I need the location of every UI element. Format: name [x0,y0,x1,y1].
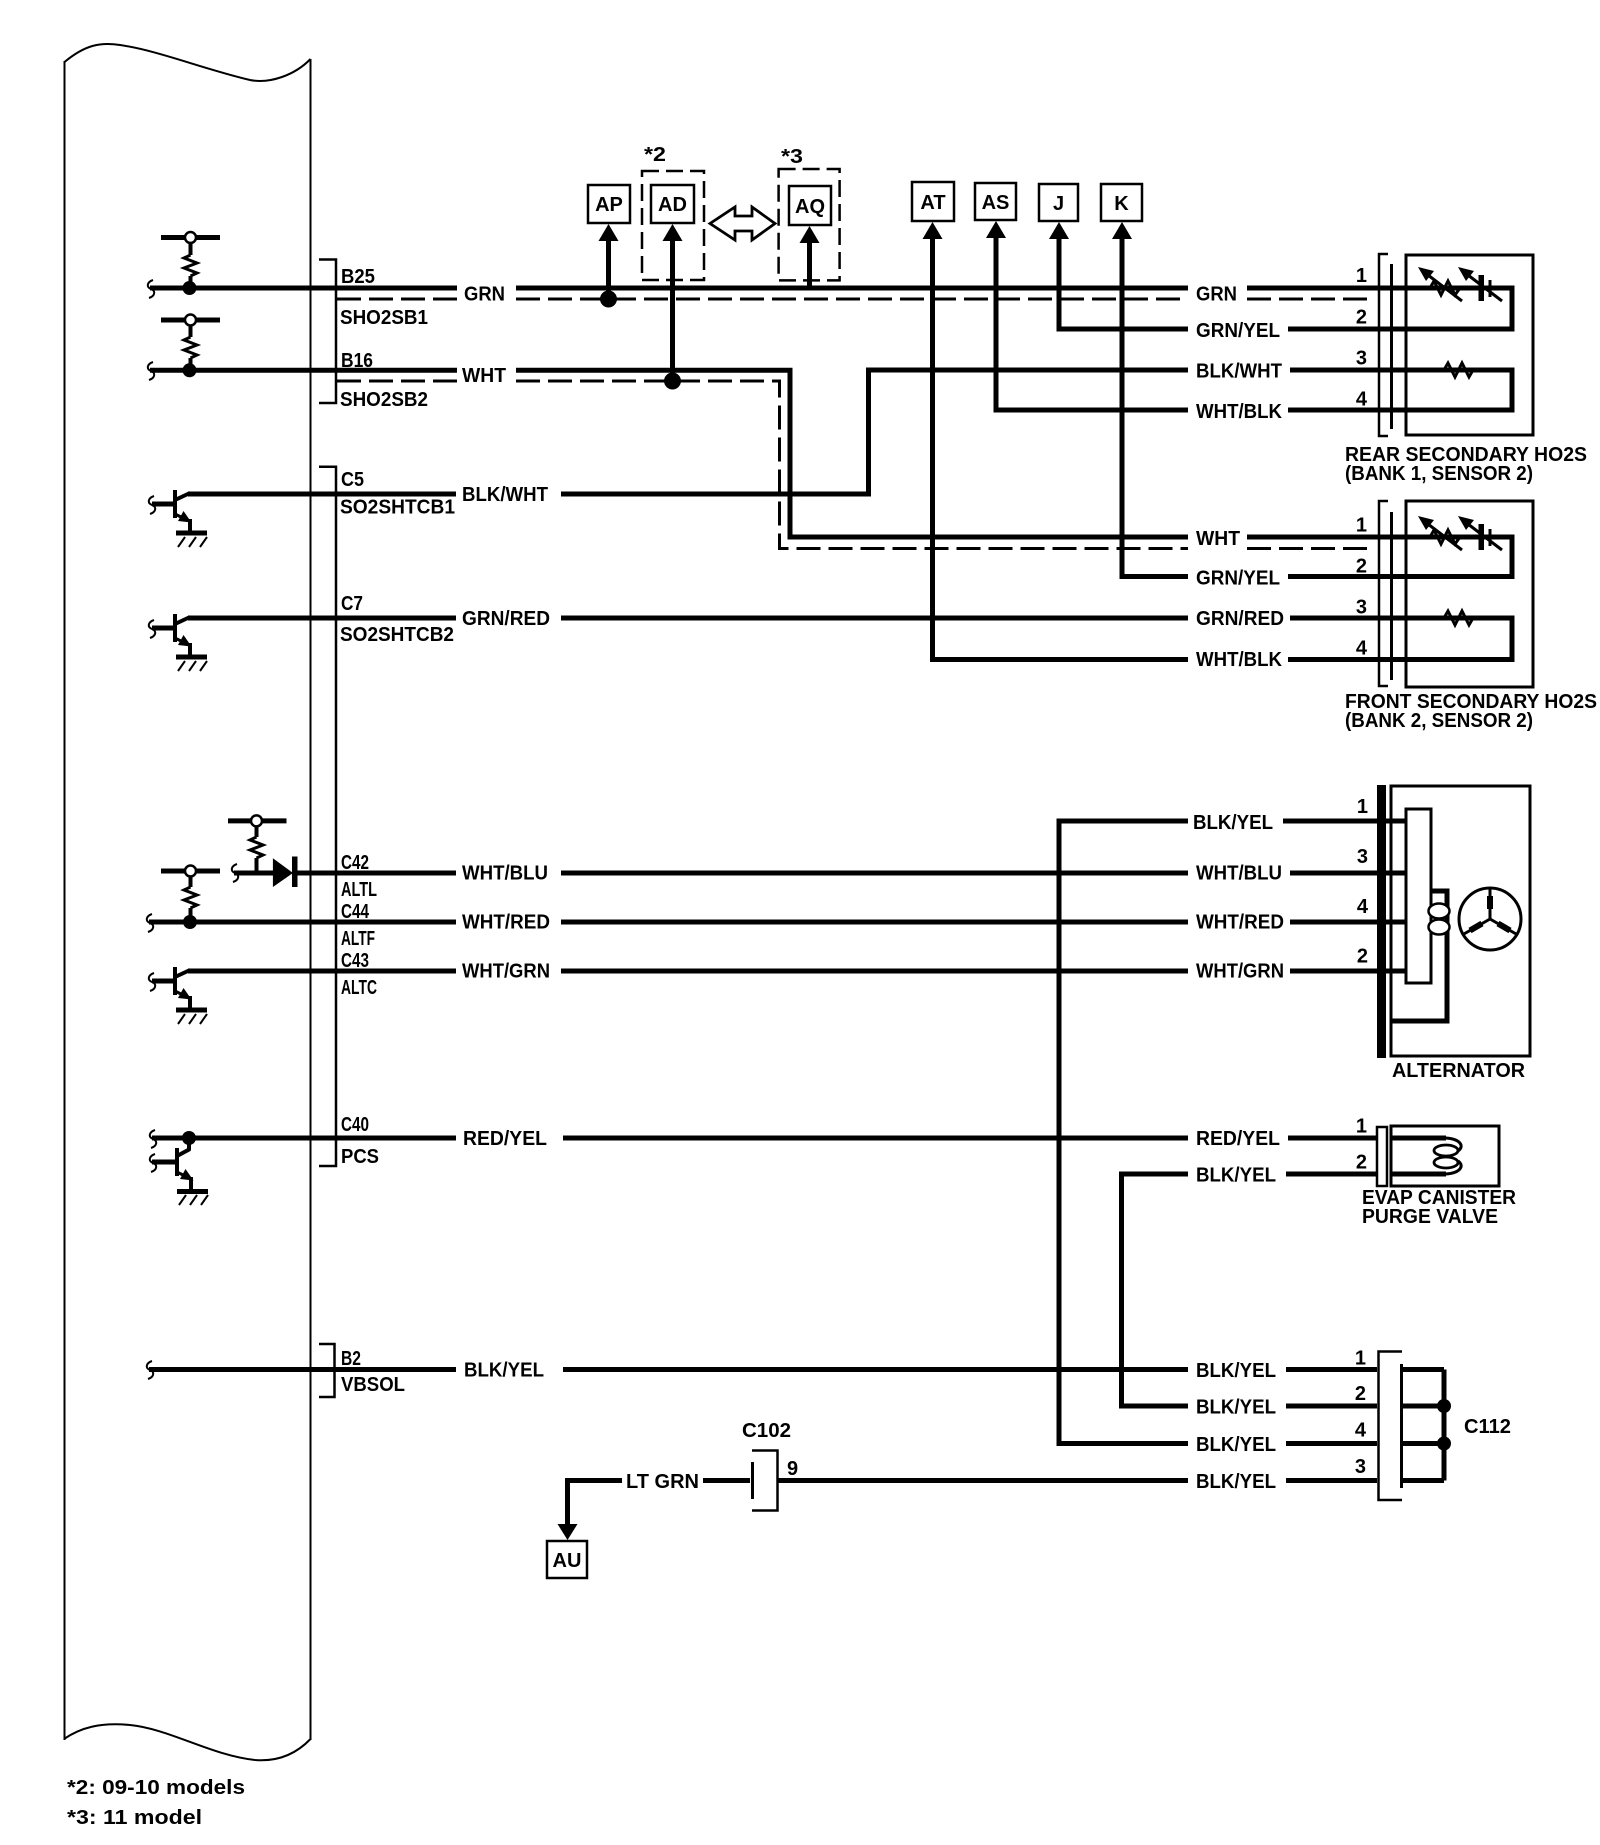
interchange double arrow between AD and AQ [710,207,775,240]
junction dot C40 [182,1131,196,1145]
front HO2S component box [1406,501,1533,687]
wire break C40 [150,1130,156,1148]
svg-text:RED/YEL: RED/YEL [463,1128,547,1150]
connector box AD [651,185,694,223]
alternator component box [1391,786,1530,1056]
svg-text:3: 3 [1356,348,1367,370]
svg-text:BLK/YEL: BLK/YEL [1196,1165,1276,1187]
svg-text:AQ: AQ [795,196,825,218]
svg-text:RED/YEL: RED/YEL [1196,1128,1280,1150]
svg-text:C5: C5 [341,469,364,491]
wire B2 pin (BLK/YEL) [149,1367,456,1372]
rear HO2S sensing element (variable resistor + cell with arrows) [1394,267,1512,329]
svg-text:AT: AT [920,192,945,214]
svg-text:BLK/WHT: BLK/WHT [462,484,548,506]
shield drain WHT (dashed) [337,381,1375,549]
svg-text:9: 9 [787,1458,798,1480]
svg-text:C42: C42 [341,852,369,874]
svg-text:BLK/YEL: BLK/YEL [464,1360,544,1382]
svg-text:AU: AU [553,1550,582,1572]
rear HO2S harness connector [1379,254,1392,436]
svg-text:J: J [1053,193,1064,215]
svg-text:VBSOL: VBSOL [341,1374,405,1396]
wire BLK/YEL C112 pin 2 stub [1286,1404,1444,1409]
svg-text:BLK/YEL: BLK/YEL [1196,1397,1276,1419]
ground (C7 emitter) [176,657,207,671]
pull-up resistor (B16 line bias) [161,315,220,369]
arrow down into AU [558,1478,578,1540]
svg-text:BLK/WHT: BLK/WHT [1196,361,1282,383]
svg-text:C40: C40 [341,1114,369,1136]
svg-text:AS: AS [982,192,1010,214]
wire BLK/YEL purge valve pin 2 / riser to C112 pin 2 [1122,1174,1378,1406]
svg-text:C112: C112 [1464,1416,1511,1438]
C112 joined bus [1442,1370,1447,1481]
pin group bracket C5..C40 [319,467,336,1166]
svg-text:B16: B16 [341,350,373,372]
svg-text:WHT: WHT [462,365,506,387]
junction dot C112 pin 2 [1437,1399,1451,1413]
diode D1 (C42) [273,857,298,888]
svg-text:ALTL: ALTL [341,879,377,901]
svg-text:*2: 09-10 models: *2: 09-10 models [67,1777,245,1799]
svg-text:C102: C102 [742,1420,791,1442]
svg-text:1: 1 [1357,796,1368,818]
wire break B25 [148,280,154,298]
svg-text:C43: C43 [341,950,369,972]
wire BLK/YEL C102 pin 9 to C112 pin 3 [778,1478,1444,1483]
wire GRN/RED run C7 to front HO2S pin 3 [561,616,1512,621]
arrow into AS / wire to rear HO2S pin 4 [986,221,1188,410]
svg-text:*2: *2 [644,144,666,166]
svg-text:2: 2 [1357,946,1368,968]
wire WHT/RED run C44 to alternator pin 4 [561,920,1377,925]
svg-text:B2: B2 [341,1348,361,1370]
svg-text:(BANK 1, SENSOR 2): (BANK 1, SENSOR 2) [1345,463,1533,485]
svg-text:GRN: GRN [1196,284,1237,306]
rear HO2S heater resistor [1394,363,1512,410]
svg-text:LT GRN: LT GRN [626,1471,699,1493]
svg-text:SO2SHTCB1: SO2SHTCB1 [340,497,455,519]
EVAP purge valve component name [1362,1187,1517,1228]
EVAP purge valve harness connector [1377,1127,1387,1186]
svg-text:WHT/GRN: WHT/GRN [1196,961,1284,983]
wire WHT/GRN run C43 to alternator pin 2 [561,969,1377,974]
pin group bracket B2 [319,1344,335,1397]
svg-text:1: 1 [1356,515,1367,537]
rear HO2S component box [1406,255,1533,435]
alternator field coil [1393,891,1450,1021]
EVAP purge valve component box [1391,1126,1499,1186]
svg-text:4: 4 [1356,389,1368,411]
svg-text:WHT/RED: WHT/RED [1196,912,1284,934]
rear HO2S component name [1345,444,1587,485]
wire GRN run to rear HO2S pin 1 [516,286,1512,291]
wire BLK/WHT riser C5 to rear HO2S pin 3 [561,370,1512,494]
front HO2S sensing element (variable resistor + cell with arrows) [1394,516,1512,577]
wire break B16 [148,362,154,380]
svg-text:*3: 11 model: *3: 11 model [67,1807,202,1829]
svg-text:BLK/YEL: BLK/YEL [1193,812,1273,834]
connector box AT [912,182,954,221]
svg-text:BLK/YEL: BLK/YEL [1196,1360,1276,1382]
wire break B2 [147,1361,153,1379]
junction dot AD on WHT shield [664,373,681,390]
svg-text:K: K [1114,193,1129,215]
connector box AU [547,1541,587,1578]
pin group bracket B25/B16 (SHO2SB) [319,260,336,404]
junction dot AP on GRN shield [600,291,617,308]
wire break C44 [147,914,153,932]
connector box J [1039,184,1078,221]
svg-text:WHT/GRN: WHT/GRN [462,961,550,983]
pull-up resistor (B25 line bias) [161,232,220,286]
svg-text:WHT/BLK: WHT/BLK [1196,649,1283,671]
wire B25 pin (GRN) [150,286,457,291]
connector C102 (in-line) [752,1451,778,1511]
transistor driver C40 [150,1138,194,1190]
wire BLK/YEL alternator pin 1 / riser to C112 pin 4 [1059,821,1377,1444]
svg-text:WHT/BLU: WHT/BLU [1196,863,1282,885]
svg-text:GRN/YEL: GRN/YEL [1196,568,1280,590]
front HO2S harness connector [1379,501,1392,686]
svg-text:ALTC: ALTC [341,977,377,999]
svg-text:2: 2 [1355,1383,1366,1405]
svg-text:GRN/RED: GRN/RED [462,608,550,630]
alternator three-phase stator [1459,888,1521,950]
arrow into K / wire to front HO2S pin 2 [1112,222,1188,577]
svg-text:GRN/YEL: GRN/YEL [1196,320,1280,342]
ground (C5 emitter) [176,533,207,547]
wire WHT/BLK rear (from AS) [1288,408,1512,413]
junction dot C44 [183,915,197,929]
wire B2 BLK/YEL run to C112 pin 1 [563,1367,1444,1372]
svg-text:*3: *3 [781,146,803,168]
svg-text:SHO2SB2: SHO2SB2 [340,389,428,411]
arrow into J / wire to rear HO2S pin 2 [1049,222,1188,329]
wire WHT run / drop to front HO2S pin 1 [516,370,1512,537]
svg-text:WHT/BLU: WHT/BLU [462,863,548,885]
ECM/PCM body outline (torn-edge box) [64,44,311,1760]
svg-text:C44: C44 [341,901,370,923]
svg-text:BLK/YEL: BLK/YEL [1196,1471,1276,1493]
junction dot B25 [183,281,197,295]
svg-text:AD: AD [658,194,687,216]
svg-text:4: 4 [1357,896,1369,918]
svg-text:GRN/RED: GRN/RED [1196,608,1284,630]
wire break C42 [232,864,238,882]
arrow into AT / wire to front HO2S pin 4 [923,222,1189,660]
alternator regulator block [1386,809,1431,983]
svg-text:PURGE VALVE: PURGE VALVE [1362,1206,1498,1228]
svg-text:WHT/RED: WHT/RED [462,912,550,934]
arrow into AP from GRN shield [599,224,619,299]
connector box AP [588,185,630,223]
junction dot C112 pin 4 [1437,1437,1451,1451]
svg-text:2: 2 [1356,1152,1367,1174]
wire GRN/YEL front (from K) [1288,574,1512,579]
ground (C40 emitter) [177,1192,208,1206]
wire WHT/BLK front (from AT) [1288,657,1512,662]
svg-text:C7: C7 [341,593,363,615]
wire GRN/YEL rear (from J) [1288,327,1512,332]
front HO2S heater resistor [1394,611,1512,660]
connector box AQ [789,186,831,225]
front HO2S component name [1345,691,1597,732]
ground (C43 emitter) [176,1010,207,1024]
wire C43 pin (WHT/GRN) [188,969,456,974]
svg-text:AP: AP [595,194,623,216]
transistor driver C5 [149,490,192,532]
transistor driver C7 [149,614,192,656]
wire B16 pin (WHT) [150,368,457,373]
svg-text:3: 3 [1355,1456,1366,1478]
svg-text:4: 4 [1355,1420,1367,1442]
svg-text:B25: B25 [341,266,375,288]
svg-text:SHO2SB1: SHO2SB1 [340,307,428,329]
pull-up resistor (C42 bias) [228,815,287,873]
svg-text:WHT/BLK: WHT/BLK [1196,401,1283,423]
svg-text:3: 3 [1357,846,1368,868]
connector box K [1101,184,1142,221]
svg-text:ALTERNATOR: ALTERNATOR [1392,1060,1526,1082]
transistor driver C43 [149,967,192,1009]
wire C44 pin (WHT/RED) [149,920,456,925]
svg-text:(BANK 2, SENSOR 2): (BANK 2, SENSOR 2) [1345,710,1533,732]
svg-text:PCS: PCS [341,1146,379,1168]
alternator harness connector bar [1377,785,1386,1058]
svg-text:WHT: WHT [1196,528,1240,550]
svg-text:2: 2 [1356,307,1367,329]
svg-text:SO2SHTCB2: SO2SHTCB2 [340,624,454,646]
svg-text:ALTF: ALTF [341,928,375,950]
wire WHT/BLU run C42 to alternator pin 3 [561,871,1377,876]
wire C40 pin (RED/YEL) [152,1136,456,1141]
connector box AS [975,183,1016,220]
svg-text:3: 3 [1356,597,1367,619]
dashed option box *3 [779,169,840,280]
svg-text:2: 2 [1356,556,1367,578]
svg-text:1: 1 [1356,265,1367,287]
EVAP purge valve solenoid coil [1391,1138,1461,1174]
wire LT GRN to C102 [568,1478,751,1483]
svg-text:1: 1 [1356,1116,1367,1138]
arrow into AD from WHT shield [663,224,683,381]
dashed option box *2 [642,171,704,280]
svg-text:4: 4 [1356,638,1368,660]
svg-text:GRN: GRN [464,284,505,306]
wire C7 pin (GRN/RED) [188,616,456,621]
shield drain GRN (dashed) [337,298,1375,301]
wire BLK/YEL C112 pin 4 stub [1286,1441,1444,1446]
wire RED/YEL run C40 to purge valve pin 1 [563,1136,1377,1141]
arrow into AQ from GRN wire [800,226,820,290]
svg-text:BLK/YEL: BLK/YEL [1196,1434,1276,1456]
wire C42 pin (WHT/BLU) [234,871,456,876]
svg-text:1: 1 [1355,1348,1366,1370]
connector C112 [1379,1352,1403,1501]
junction dot B16 [183,363,197,377]
pull-up resistor (C44 bias) [161,866,220,921]
wire C5 pin (BLK/WHT) [188,492,456,497]
